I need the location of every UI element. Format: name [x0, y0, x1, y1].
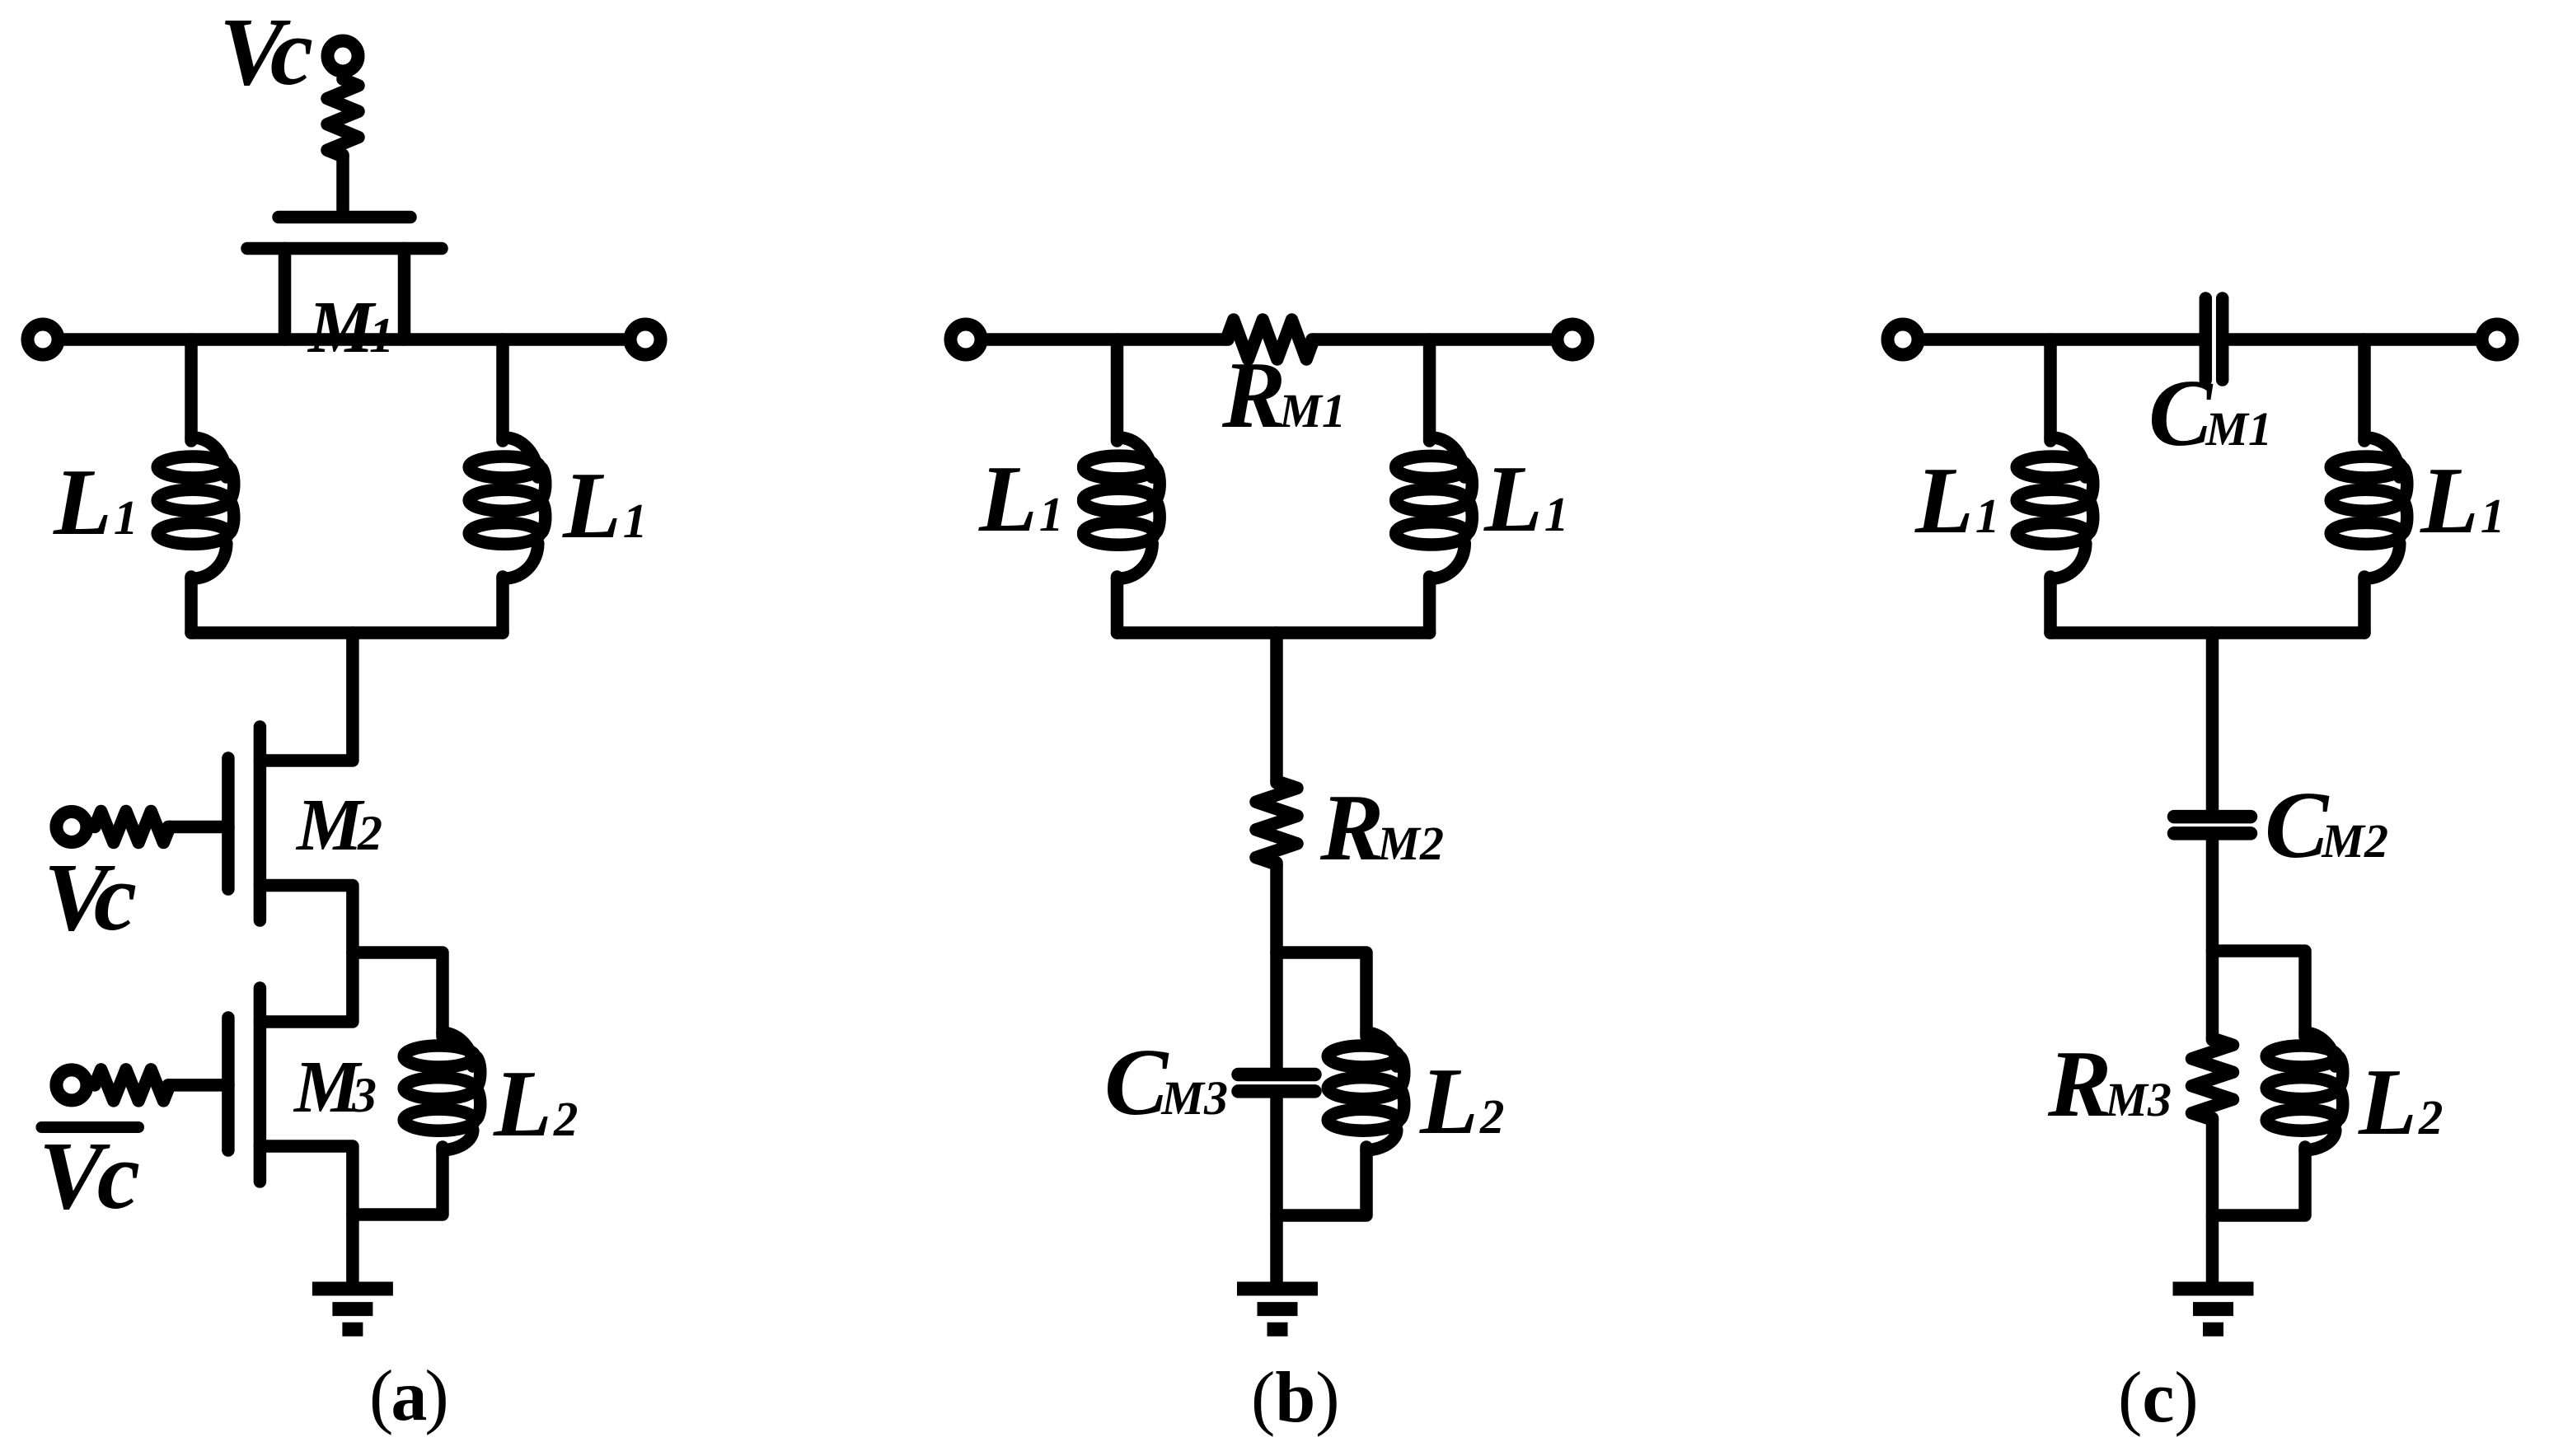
label L2 (a)	[493, 1051, 578, 1157]
terminal Vc gate (M2)	[56, 812, 87, 842]
terminal left port (b)	[951, 325, 982, 355]
wire gate lead M1	[336, 155, 349, 213]
capacitor CM1	[2205, 298, 2222, 380]
wire bottom horizontal (c)	[2050, 626, 2364, 639]
label L1 (c right)	[2420, 448, 2504, 554]
wire bottom horizontal (b)	[1118, 626, 1430, 639]
ground (a)	[312, 1289, 393, 1329]
wire stem RM2 to CM3	[1270, 863, 1283, 1069]
wire centre stem upper (b)	[1270, 633, 1283, 783]
wire M3 source	[260, 1146, 353, 1282]
wire right branch lower (c)	[2358, 577, 2371, 633]
ground (b)	[1237, 1289, 1318, 1329]
inductor L1 (c right)	[2331, 438, 2407, 578]
terminal right port (c)	[2482, 325, 2513, 355]
wire main right (b)	[1312, 333, 1553, 346]
inductor L1 (c left)	[2017, 438, 2093, 578]
label L1 (b left)	[978, 447, 1063, 552]
resistor squiggle gate M2	[95, 812, 170, 843]
svg-text:(b): (b)	[1251, 1358, 1340, 1438]
label (b)	[1251, 1358, 1340, 1438]
capacitor CM3	[1239, 1074, 1315, 1091]
wire left branch upper (c)	[2044, 339, 2057, 441]
wire centre stem upper (c)	[2206, 633, 2219, 811]
resistor RM3	[2192, 1038, 2233, 1120]
inductor L2 (c)	[2266, 1032, 2343, 1150]
wire junction to L2 (b)	[1277, 953, 1366, 1037]
inductor L1 (a right)	[469, 438, 546, 578]
terminal Vc-bar gate (M3)	[56, 1070, 87, 1100]
label L2 (c)	[2358, 1050, 2443, 1155]
label RM2	[1319, 775, 1444, 881]
inductor L2 (b)	[1328, 1032, 1404, 1150]
svg-text:Vc: Vc	[219, 0, 313, 105]
resistor RM1	[1226, 320, 1314, 359]
wire gate lead M3	[168, 1079, 228, 1092]
svg-text:Vc: Vc	[44, 843, 137, 951]
wire stem CM3 to ground (b)	[1270, 1097, 1283, 1282]
terminal right port (b)	[1558, 325, 1588, 355]
label L1 (b right)	[1483, 447, 1568, 552]
ground (c)	[2173, 1289, 2254, 1329]
wire right branch upper (b)	[1423, 339, 1436, 441]
svg-text:Vc: Vc	[39, 1121, 140, 1229]
inductor L2 (a)	[404, 1032, 480, 1150]
wire junction to L2 (a)	[353, 953, 443, 1037]
resistor RM2	[1256, 781, 1297, 864]
label L1 (a left)	[53, 450, 138, 555]
wire junction to L2 (c)	[2213, 951, 2306, 1037]
svg-text:(a): (a)	[369, 1356, 449, 1436]
wire M2 source to M3 drain	[260, 886, 353, 1023]
label (c)	[2118, 1358, 2199, 1438]
resistor squiggle from Vc terminal (a top)	[327, 79, 358, 157]
label CM3	[1104, 1030, 1228, 1135]
label M2	[295, 784, 382, 866]
wire centre stem to M2	[260, 633, 353, 761]
wire main left (b)	[986, 333, 1228, 346]
label M1	[307, 287, 394, 368]
transistor M2	[228, 727, 260, 920]
label L1 (a right)	[562, 453, 647, 559]
wire gate lead M2	[168, 821, 228, 834]
wire L2 bottom (b)	[1277, 1147, 1366, 1215]
label Vc (M2)	[44, 843, 137, 951]
wire main left (c)	[1923, 333, 2200, 346]
wire stem RM3 to ground (c)	[2206, 1118, 2219, 1282]
node Vc supply label (a)	[219, 0, 313, 105]
label RM1	[1221, 343, 1346, 448]
wire right branch lower (a)	[496, 577, 509, 633]
wire left branch upper (a)	[185, 339, 198, 441]
wire left branch lower (a)	[185, 577, 198, 633]
label RM3	[2047, 1032, 2172, 1137]
label CM2	[2265, 773, 2388, 878]
wire stem CM2 to RM3	[2206, 839, 2219, 1040]
wire left branch lower (b)	[1111, 577, 1124, 633]
terminal right port (a)	[630, 325, 661, 355]
inductor L1 (a left)	[157, 438, 234, 578]
wire left branch upper (b)	[1111, 339, 1124, 441]
label CM1	[2148, 361, 2272, 466]
label L2 (b)	[1419, 1049, 1504, 1154]
label (a)	[369, 1356, 449, 1436]
terminal Vc (a top)	[328, 41, 358, 72]
wire right branch upper (a)	[496, 339, 509, 441]
inductor L1 (b right)	[1396, 438, 1473, 578]
transistor M1	[247, 218, 442, 340]
wire left branch lower (c)	[2044, 577, 2057, 633]
capacitor CM2	[2174, 817, 2251, 833]
wire main right (c)	[2228, 333, 2477, 346]
transistor M3	[228, 988, 260, 1182]
label L1 (c left)	[1914, 448, 1999, 554]
wire right branch lower (b)	[1423, 577, 1436, 633]
terminal left port (a)	[28, 325, 59, 355]
wire right branch upper (c)	[2358, 339, 2371, 441]
label Vc-bar (M3)	[39, 1121, 140, 1229]
wire L2 bottom (a)	[353, 1147, 443, 1215]
inductor L1 (b left)	[1084, 438, 1160, 578]
resistor squiggle gate M3	[95, 1070, 170, 1101]
terminal left port (c)	[1888, 325, 1919, 355]
wire bottom horizontal (a)	[191, 626, 503, 639]
svg-text:(c): (c)	[2118, 1358, 2199, 1438]
wire main horizontal (a)	[63, 333, 626, 346]
label M3	[293, 1046, 377, 1128]
label Vc-bar overline (M3)	[41, 1121, 138, 1133]
wire L2 bottom (c)	[2213, 1147, 2306, 1215]
